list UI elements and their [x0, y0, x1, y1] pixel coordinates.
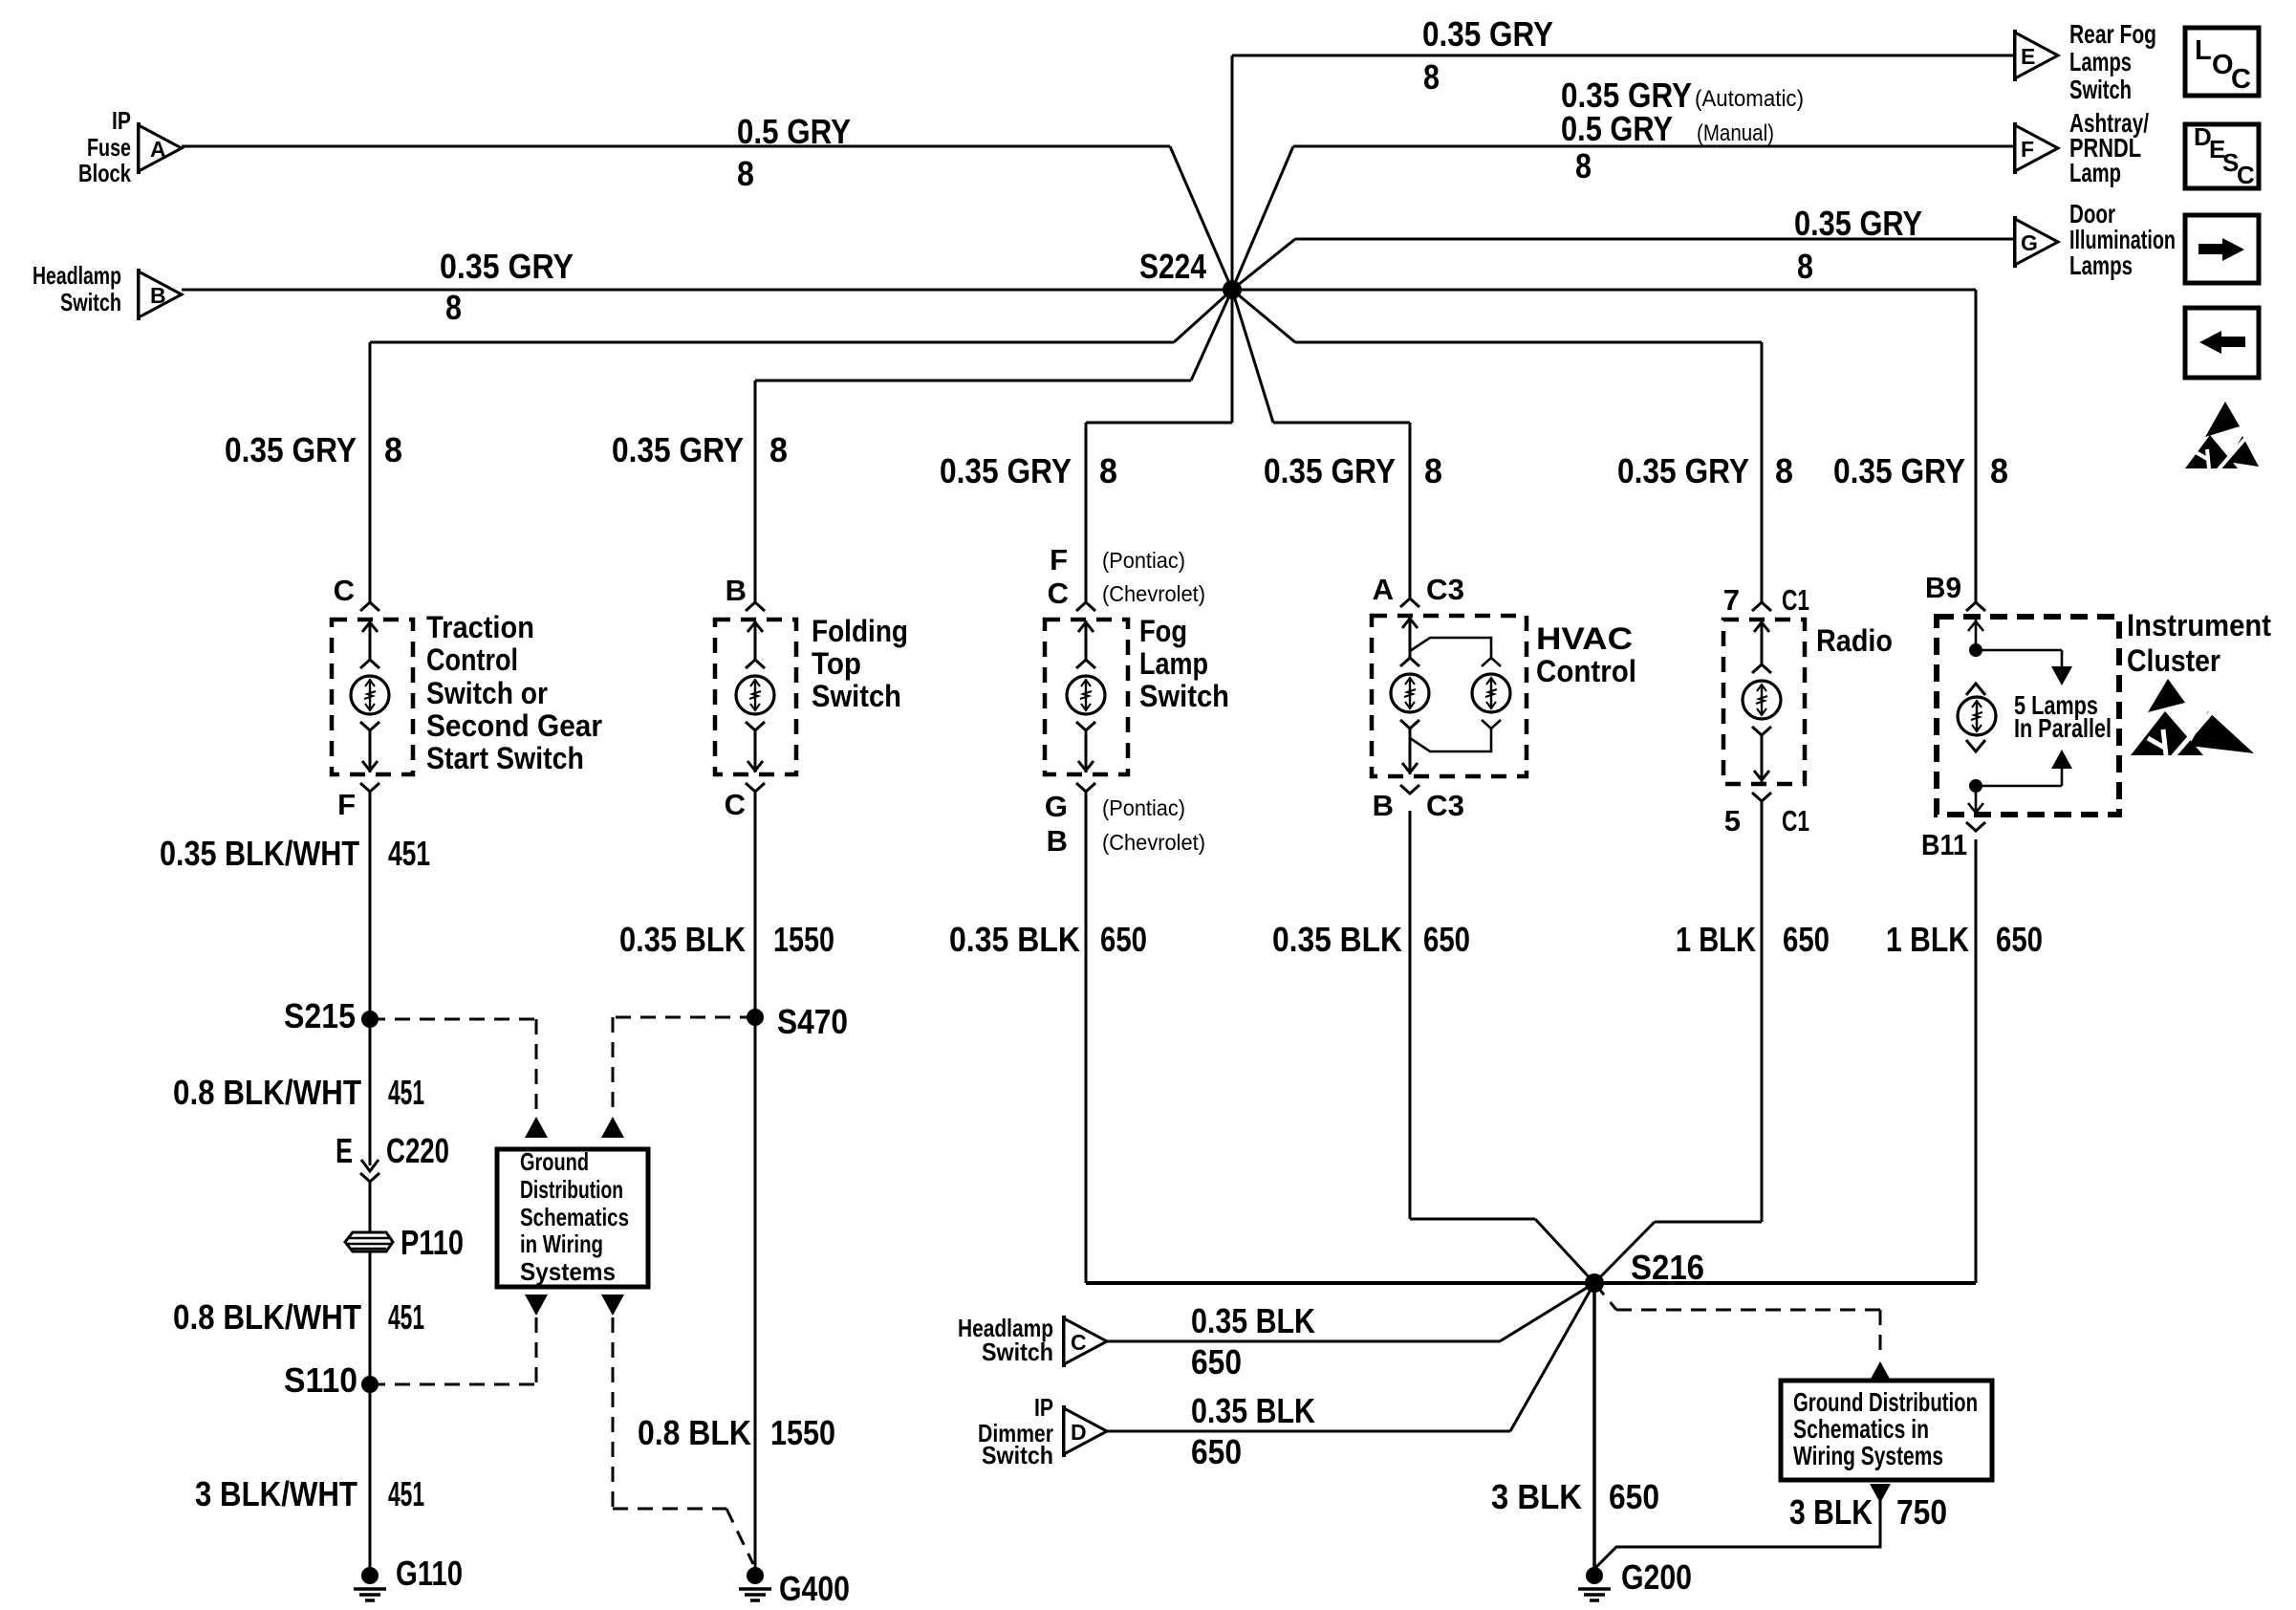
svg-text:G: G — [1045, 790, 1068, 823]
svg-text:0.35 GRY: 0.35 GRY — [1794, 204, 1922, 243]
svg-text:Control: Control — [426, 642, 518, 677]
svg-text:8: 8 — [1575, 146, 1592, 185]
svg-text:Headlamp: Headlamp — [32, 261, 121, 290]
svg-text:0.35 GRY: 0.35 GRY — [1264, 451, 1396, 490]
svg-text:C: C — [1048, 577, 1069, 610]
svg-text:B: B — [150, 283, 166, 308]
svg-text:Fog: Fog — [1139, 614, 1187, 648]
svg-text:A: A — [150, 137, 166, 162]
svg-text:0.35 GRY: 0.35 GRY — [225, 430, 357, 469]
svg-text:(Pontiac): (Pontiac) — [1102, 795, 1185, 820]
svg-text:Switch: Switch — [812, 679, 901, 713]
svg-text:Distribution: Distribution — [520, 1175, 623, 1204]
svg-text:Rear Fog: Rear Fog — [2069, 19, 2156, 49]
svg-text:S470: S470 — [777, 1002, 848, 1041]
svg-text:B: B — [726, 574, 747, 607]
svg-text:451: 451 — [388, 1073, 424, 1112]
svg-text:D: D — [1071, 1420, 1087, 1445]
svg-text:0.35 GRY: 0.35 GRY — [440, 247, 574, 286]
svg-text:3 BLK/WHT: 3 BLK/WHT — [195, 1474, 357, 1513]
svg-text:C: C — [2231, 64, 2251, 95]
svg-text:C: C — [1071, 1330, 1087, 1355]
svg-text:Start Switch: Start Switch — [426, 741, 584, 775]
svg-text:8: 8 — [384, 430, 402, 469]
svg-text:0.35 GRY: 0.35 GRY — [1833, 451, 1965, 490]
svg-text:Lamps: Lamps — [2069, 47, 2132, 76]
svg-text:1550: 1550 — [770, 1413, 835, 1452]
svg-text:Cluster: Cluster — [2127, 643, 2220, 678]
svg-text:0.35 BLK: 0.35 BLK — [949, 920, 1080, 959]
svg-text:Switch: Switch — [2069, 75, 2132, 104]
svg-text:B: B — [1373, 789, 1394, 822]
svg-text:1 BLK: 1 BLK — [1676, 920, 1756, 959]
svg-text:Switch: Switch — [982, 1441, 1053, 1469]
svg-text:Traction: Traction — [426, 610, 534, 644]
svg-text:F: F — [2021, 137, 2034, 162]
svg-text:Lamp: Lamp — [1139, 646, 1208, 681]
svg-text:Instrument: Instrument — [2127, 608, 2271, 642]
svg-text:Folding: Folding — [812, 614, 908, 648]
svg-text:650: 650 — [1783, 920, 1830, 959]
svg-text:8: 8 — [737, 154, 754, 193]
svg-text:G200: G200 — [1621, 1557, 1692, 1597]
svg-text:0.35 GRY: 0.35 GRY — [1422, 14, 1553, 54]
svg-text:7: 7 — [1723, 583, 1740, 617]
svg-text:(Chevrolet): (Chevrolet) — [1102, 830, 1205, 855]
svg-text:1 BLK: 1 BLK — [1886, 920, 1969, 959]
svg-text:0.35 BLK: 0.35 BLK — [1191, 1391, 1315, 1430]
svg-text:S110: S110 — [284, 1360, 357, 1400]
svg-text:Switch or: Switch or — [426, 676, 548, 710]
svg-text:S215: S215 — [284, 996, 356, 1035]
svg-text:0.35 BLK: 0.35 BLK — [1191, 1301, 1315, 1340]
svg-text:S216: S216 — [1631, 1248, 1704, 1287]
svg-text:Wiring Systems: Wiring Systems — [1793, 1441, 1943, 1470]
svg-text:650: 650 — [1100, 920, 1147, 959]
svg-text:(Chevrolet): (Chevrolet) — [1102, 581, 1205, 606]
svg-text:451: 451 — [388, 834, 430, 873]
svg-text:0.35 BLK: 0.35 BLK — [619, 920, 746, 959]
svg-text:451: 451 — [388, 1474, 424, 1513]
svg-text:5: 5 — [1724, 804, 1741, 838]
svg-text:Systems: Systems — [520, 1257, 616, 1286]
svg-text:650: 650 — [1609, 1477, 1659, 1516]
svg-text:0.35 BLK: 0.35 BLK — [1272, 920, 1402, 959]
svg-text:0.35 GRY: 0.35 GRY — [940, 451, 1072, 490]
svg-text:HVAC: HVAC — [1536, 621, 1633, 656]
svg-text:Block: Block — [78, 159, 131, 187]
svg-text:750: 750 — [1896, 1492, 1947, 1532]
svg-text:0.35 BLK/WHT: 0.35 BLK/WHT — [160, 834, 359, 873]
svg-text:E: E — [2021, 44, 2035, 69]
svg-text:3 BLK: 3 BLK — [1491, 1477, 1582, 1516]
svg-text:0.35 GRY: 0.35 GRY — [1617, 451, 1749, 490]
svg-text:C3: C3 — [1426, 573, 1464, 606]
svg-text:L: L — [2195, 35, 2212, 66]
svg-text:Schematics: Schematics — [520, 1203, 629, 1231]
svg-text:C220: C220 — [386, 1131, 449, 1170]
svg-text:B11: B11 — [1921, 828, 1967, 861]
svg-text:Lamps: Lamps — [2069, 250, 2133, 280]
svg-text:Switch: Switch — [1139, 679, 1229, 713]
svg-text:650: 650 — [1191, 1432, 1242, 1471]
svg-text:Switch: Switch — [982, 1338, 1053, 1366]
svg-text:B9: B9 — [1925, 571, 1961, 604]
svg-text:F: F — [1050, 543, 1068, 577]
svg-text:Ground Distribution: Ground Distribution — [1793, 1387, 1978, 1417]
svg-text:IP: IP — [112, 106, 131, 135]
svg-text:8: 8 — [1775, 451, 1793, 490]
svg-text:8: 8 — [1099, 451, 1117, 490]
svg-text:B: B — [1047, 824, 1068, 858]
svg-text:(Automatic): (Automatic) — [1695, 86, 1804, 112]
svg-text:P110: P110 — [401, 1223, 464, 1262]
svg-text:Lamp: Lamp — [2069, 158, 2121, 187]
svg-text:C1: C1 — [1782, 804, 1809, 838]
svg-text:650: 650 — [1996, 920, 2043, 959]
svg-text:G: G — [2021, 230, 2038, 255]
svg-text:Top: Top — [812, 646, 861, 681]
svg-text:8: 8 — [1424, 451, 1442, 490]
svg-text:Schematics in: Schematics in — [1793, 1414, 1929, 1444]
svg-text:C1: C1 — [1782, 583, 1809, 617]
svg-text:C: C — [334, 574, 355, 607]
svg-text:8: 8 — [1990, 451, 2008, 490]
svg-text:0.35 GRY: 0.35 GRY — [612, 430, 744, 469]
svg-text:Switch: Switch — [60, 288, 121, 316]
svg-text:1550: 1550 — [773, 920, 834, 959]
svg-text:A: A — [1373, 573, 1394, 606]
svg-text:0.5 GRY: 0.5 GRY — [1561, 109, 1673, 148]
svg-text:Ground: Ground — [520, 1147, 589, 1176]
svg-text:3 BLK: 3 BLK — [1789, 1492, 1873, 1532]
svg-text:S224: S224 — [1139, 247, 1206, 286]
svg-text:Fuse: Fuse — [87, 133, 131, 162]
svg-text:G110: G110 — [396, 1554, 463, 1593]
svg-text:In Parallel: In Parallel — [2014, 713, 2112, 743]
svg-text:C: C — [2237, 161, 2255, 189]
svg-text:Control: Control — [1536, 654, 1636, 688]
svg-text:F: F — [337, 788, 356, 821]
svg-text:0.5 GRY: 0.5 GRY — [737, 112, 851, 151]
svg-text:451: 451 — [388, 1297, 424, 1337]
svg-text:8: 8 — [445, 288, 462, 327]
svg-text:G400: G400 — [779, 1569, 850, 1608]
svg-text:C3: C3 — [1426, 789, 1464, 822]
svg-text:8: 8 — [1423, 57, 1440, 97]
svg-text:0.8 BLK: 0.8 BLK — [638, 1413, 751, 1452]
svg-text:C: C — [725, 788, 746, 821]
svg-text:0.8 BLK/WHT: 0.8 BLK/WHT — [173, 1297, 361, 1337]
svg-text:0.8 BLK/WHT: 0.8 BLK/WHT — [173, 1073, 361, 1112]
svg-text:E: E — [336, 1131, 353, 1170]
svg-text:650: 650 — [1191, 1342, 1242, 1382]
svg-text:8: 8 — [1797, 247, 1813, 286]
svg-text:(Manual): (Manual) — [1697, 120, 1774, 146]
svg-text:in Wiring: in Wiring — [520, 1229, 603, 1258]
svg-text:IP: IP — [1034, 1393, 1053, 1422]
svg-text:8: 8 — [769, 430, 788, 469]
svg-text:Second Gear: Second Gear — [426, 708, 602, 743]
svg-text:Radio: Radio — [1816, 623, 1893, 658]
svg-text:650: 650 — [1423, 920, 1470, 959]
svg-text:(Pontiac): (Pontiac) — [1102, 548, 1185, 573]
